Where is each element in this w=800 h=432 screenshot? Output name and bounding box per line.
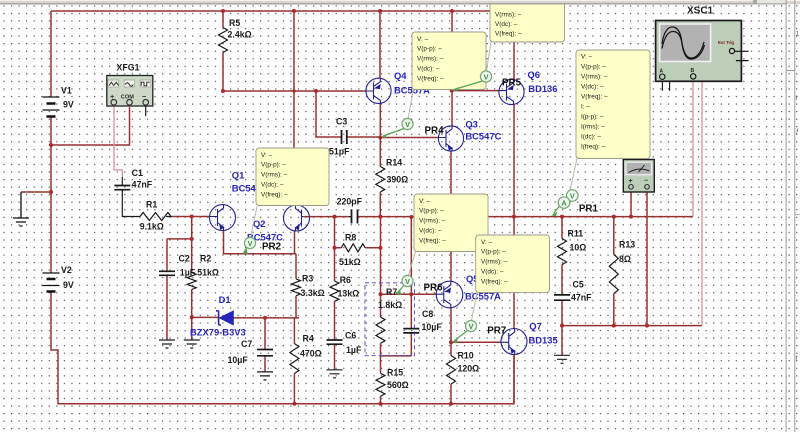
svg-text:R11: R11 xyxy=(568,229,584,239)
svg-text:V(p-p): –: V(p-p): – xyxy=(419,208,444,215)
svg-text:10µF: 10µF xyxy=(228,355,249,365)
svg-text:C5: C5 xyxy=(573,280,584,290)
svg-text:V2: V2 xyxy=(61,265,72,275)
svg-text:V: V xyxy=(248,239,253,248)
svg-text:V(dc): –: V(dc): – xyxy=(261,182,284,189)
svg-text:PR4: PR4 xyxy=(425,126,445,137)
svg-text:−: − xyxy=(644,178,648,185)
svg-text:V(dc): –: V(dc): – xyxy=(581,84,604,91)
svg-text:51pF: 51pF xyxy=(329,147,350,157)
svg-text:V(dc): –: V(dc): – xyxy=(419,228,442,235)
svg-text:V(rms): –: V(rms): – xyxy=(481,259,508,266)
svg-text:V(p-p): –: V(p-p): – xyxy=(481,249,506,256)
svg-text:V(rms): –: V(rms): – xyxy=(419,218,446,225)
svg-text:V(dc): –: V(dc): – xyxy=(481,269,504,276)
svg-text:I(dc): –: I(dc): – xyxy=(581,134,601,141)
svg-text:C1: C1 xyxy=(132,168,143,178)
svg-text:BD136: BD136 xyxy=(528,83,557,94)
svg-text:V(freq): –: V(freq): – xyxy=(261,191,288,198)
svg-text:R6: R6 xyxy=(340,275,351,285)
svg-text:V: V xyxy=(484,72,489,81)
svg-text:470Ω: 470Ω xyxy=(300,349,322,359)
svg-text:C6: C6 xyxy=(345,331,356,341)
svg-text:R10: R10 xyxy=(458,351,474,361)
svg-text:Q6: Q6 xyxy=(528,69,541,80)
svg-text:9V: 9V xyxy=(63,280,74,290)
svg-text:R5: R5 xyxy=(229,18,240,28)
svg-text:560Ω: 560Ω xyxy=(387,380,409,390)
svg-text:9V: 9V xyxy=(63,100,74,110)
svg-text:V(p-p): –: V(p-p): – xyxy=(261,162,286,169)
svg-text:10Ω: 10Ω xyxy=(570,243,587,253)
svg-text:+: + xyxy=(629,178,633,185)
svg-text:R2: R2 xyxy=(200,254,211,264)
svg-text:V(rms): –: V(rms): – xyxy=(495,11,522,18)
svg-text:V: V xyxy=(469,322,474,331)
svg-text:V: V xyxy=(405,120,410,129)
svg-text:I(p-p): –: I(p-p): – xyxy=(581,114,604,121)
svg-text:V(p-p): –: V(p-p): – xyxy=(417,46,442,53)
svg-text:V: –: V: – xyxy=(481,239,493,246)
svg-text:V: –: V: – xyxy=(419,198,431,205)
svg-text:PR5: PR5 xyxy=(502,78,522,89)
svg-text:V: –: V: – xyxy=(261,152,273,159)
svg-text:1µF: 1µF xyxy=(180,268,196,278)
svg-text:V: –: V: – xyxy=(417,36,429,43)
svg-text:C8: C8 xyxy=(422,309,433,319)
svg-text:V: V xyxy=(570,191,575,200)
svg-text:R14: R14 xyxy=(386,158,402,168)
svg-text:BD135: BD135 xyxy=(529,335,558,346)
svg-text:Q4: Q4 xyxy=(394,70,407,81)
svg-text:1µF: 1µF xyxy=(346,345,362,355)
svg-text:V(rms): –: V(rms): – xyxy=(581,74,608,81)
svg-text:10µF: 10µF xyxy=(422,322,443,332)
svg-text:PR6: PR6 xyxy=(424,283,444,294)
svg-text:V(freq): –: V(freq): – xyxy=(495,31,522,38)
svg-text:1.8kΩ: 1.8kΩ xyxy=(378,300,402,310)
svg-text:Q3: Q3 xyxy=(465,119,478,130)
svg-text:V(freq): –: V(freq): – xyxy=(419,237,446,244)
svg-text:V(dc): –: V(dc): – xyxy=(417,66,440,73)
svg-text:I: –: I: – xyxy=(581,104,590,111)
svg-text:V(rms): –: V(rms): – xyxy=(261,172,288,179)
svg-text:9.1kΩ: 9.1kΩ xyxy=(140,222,164,232)
svg-text:Q1: Q1 xyxy=(232,169,245,180)
svg-text:A: A xyxy=(561,198,566,207)
svg-text:Ext Trig: Ext Trig xyxy=(718,40,734,45)
svg-text:47nF: 47nF xyxy=(132,180,153,190)
svg-text:V(freq): –: V(freq): – xyxy=(417,75,444,82)
svg-text:47nF: 47nF xyxy=(571,293,592,303)
svg-text:V(p-p): –: V(p-p): – xyxy=(581,64,606,71)
svg-text:51kΩ: 51kΩ xyxy=(197,268,219,278)
svg-text:C2: C2 xyxy=(179,254,190,264)
svg-text:120Ω: 120Ω xyxy=(458,364,480,374)
svg-text:B: B xyxy=(691,68,695,74)
svg-text:2.4kΩ: 2.4kΩ xyxy=(228,30,252,40)
svg-text:R7: R7 xyxy=(386,287,397,297)
svg-text:I(freq): –: I(freq): – xyxy=(581,144,606,151)
svg-text:V(freq): –: V(freq): – xyxy=(481,278,508,285)
svg-text:V(freq): –: V(freq): – xyxy=(581,94,608,101)
svg-text:XFG1: XFG1 xyxy=(117,63,140,73)
svg-text:XSC1: XSC1 xyxy=(687,6,714,17)
svg-text:3.3kΩ: 3.3kΩ xyxy=(301,288,325,298)
svg-text:V: V xyxy=(405,277,410,286)
svg-text:PR1: PR1 xyxy=(579,204,599,215)
svg-text:390Ω: 390Ω xyxy=(387,175,409,185)
svg-text:C3: C3 xyxy=(336,117,347,127)
svg-text:D1: D1 xyxy=(219,294,231,305)
svg-text:V: –: V: – xyxy=(581,54,593,61)
svg-text:R3: R3 xyxy=(302,274,313,284)
svg-text:51kΩ: 51kΩ xyxy=(339,257,361,267)
svg-text:R1: R1 xyxy=(146,200,157,210)
svg-text:R8: R8 xyxy=(345,233,356,243)
svg-text:Q7: Q7 xyxy=(529,321,542,332)
svg-text:220pF: 220pF xyxy=(337,197,363,207)
svg-text:PR7: PR7 xyxy=(487,326,507,337)
svg-text:13kΩ: 13kΩ xyxy=(338,289,360,299)
svg-text:ƒ: ƒ xyxy=(796,129,799,135)
svg-text:I(rms): –: I(rms): – xyxy=(581,124,605,131)
svg-text:BC547C: BC547C xyxy=(465,131,501,142)
svg-text:8Ω: 8Ω xyxy=(619,254,631,264)
svg-text:C7: C7 xyxy=(241,339,252,349)
svg-text:V1: V1 xyxy=(61,86,72,96)
svg-text:V(dc): –: V(dc): – xyxy=(495,21,518,28)
svg-text:R13: R13 xyxy=(619,240,635,250)
svg-text:R4: R4 xyxy=(303,334,314,344)
svg-text:BZX79-B3V3: BZX79-B3V3 xyxy=(190,327,246,338)
svg-text:Q2: Q2 xyxy=(253,218,266,229)
svg-text:V(rms): –: V(rms): – xyxy=(417,56,444,63)
svg-text:PR2: PR2 xyxy=(262,242,282,253)
svg-text:R15: R15 xyxy=(387,368,403,378)
